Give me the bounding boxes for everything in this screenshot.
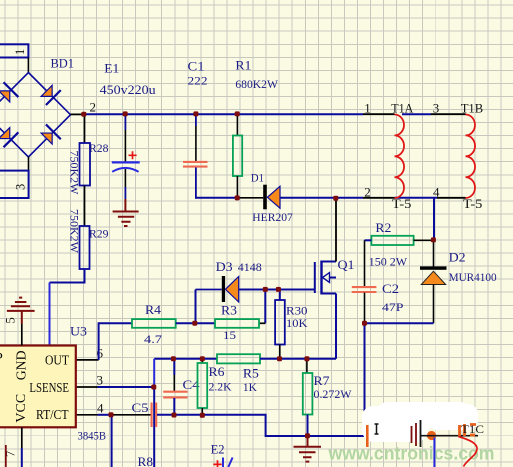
orange blob dot bbox=[427, 431, 436, 440]
diode D3 left lead bbox=[196, 289, 222, 291]
wire: LSENSE pin stub bbox=[76, 386, 98, 388]
wire: top bus black lead to T1A pin1 bbox=[363, 113, 395, 115]
BD1 diode upper-right bbox=[39, 83, 61, 105]
svg-text:MUR4100: MUR4100 bbox=[449, 270, 497, 284]
svg-text:4.7: 4.7 bbox=[144, 332, 162, 346]
svg-text:D2: D2 bbox=[449, 251, 466, 265]
svg-text:3: 3 bbox=[14, 184, 28, 190]
node: bus at bridge bbox=[81, 112, 86, 117]
capacitor C4 lower lead bbox=[173, 398, 175, 415]
svg-text:BD1: BD1 bbox=[51, 55, 75, 70]
svg-text:4: 4 bbox=[97, 400, 104, 415]
wire: R4 to R3 bbox=[176, 322, 215, 324]
wire: riser below RT/CT node bbox=[111, 415, 113, 467]
svg-text:5: 5 bbox=[4, 317, 18, 323]
wire: LSENSE to riser node bbox=[98, 386, 154, 388]
capacitor C2 lower lead bbox=[364, 293, 366, 324]
svg-text:750K2W: 750K2W bbox=[68, 151, 80, 195]
capacitor E1 lower lead bbox=[124, 169, 126, 187]
svg-text:D3: D3 bbox=[216, 260, 233, 274]
partial cap marks (maroon) bbox=[412, 423, 417, 446]
wire: R3 right lead bbox=[259, 322, 265, 324]
transformer winding T1B bbox=[466, 115, 476, 199]
wire: R1 node to D1 bbox=[237, 197, 263, 199]
ground below R7 bbox=[294, 436, 322, 462]
node: R2 right / D2 bbox=[431, 237, 436, 242]
wire: D2 bottom rail to C2 node bbox=[365, 322, 434, 324]
wire: top bus bbox=[83, 113, 363, 115]
node: mid rail R6 bbox=[200, 356, 205, 361]
wire: blue drop below T1C bbox=[433, 438, 435, 467]
resistor R3 bbox=[215, 319, 259, 328]
wire: black lead pin4 to T1B bottom bbox=[437, 197, 466, 199]
capacitor C1 plates bbox=[183, 162, 208, 167]
svg-text:Q1: Q1 bbox=[338, 258, 355, 272]
node: mid rail R30 bbox=[277, 356, 282, 361]
node: bus at E1 bbox=[123, 111, 128, 116]
svg-text:R4: R4 bbox=[145, 303, 162, 317]
BD1 diode lower-right bbox=[39, 124, 61, 146]
transformer winding T1A bbox=[395, 115, 405, 199]
svg-text:R1: R1 bbox=[235, 59, 251, 73]
orange strokes over T1C bbox=[460, 424, 477, 436]
diode D3 cathode bar bbox=[222, 276, 225, 302]
resistor R7 bottom lead bbox=[307, 415, 309, 437]
transistor Q1 source tap bbox=[322, 293, 337, 295]
wire: R2 right lead bbox=[414, 239, 434, 241]
svg-text:1: 1 bbox=[13, 49, 27, 55]
svg-text:R7: R7 bbox=[314, 374, 330, 388]
svg-text:E1: E1 bbox=[104, 61, 119, 75]
wire: OUT riser to R4 line bbox=[99, 323, 132, 360]
wire: R30 top riser bbox=[279, 290, 281, 301]
resistor R7 bbox=[303, 373, 313, 415]
svg-text:15: 15 bbox=[223, 328, 236, 342]
wire: bridge bottom to box3 bbox=[28, 157, 30, 171]
diode D2 cathode bar bbox=[420, 266, 447, 269]
resistor R2 bbox=[371, 236, 413, 245]
svg-text:P: P bbox=[0, 351, 3, 366]
svg-text:4: 4 bbox=[433, 185, 440, 200]
BD1 diode lower-left bbox=[0, 126, 18, 148]
wire: black lead pin3 to T1B bbox=[431, 113, 466, 115]
wire: riser to U3 VREF pin bbox=[49, 283, 51, 346]
capacitor C1 lower lead bbox=[195, 168, 197, 199]
capacitor C2 upper lead bbox=[364, 240, 366, 286]
svg-text:2.2K: 2.2K bbox=[209, 380, 232, 394]
svg-text:3: 3 bbox=[433, 101, 440, 116]
diode D1 cathode bar bbox=[263, 185, 267, 210]
diode D2 triangle bbox=[421, 271, 445, 284]
wire: mid rail right part bbox=[260, 358, 336, 360]
wire: D1 to Q1 drain node bbox=[280, 197, 363, 199]
svg-text:10K: 10K bbox=[286, 316, 308, 330]
transistor Q1 channel bar bbox=[320, 261, 322, 295]
wire: bottom rail to R7 ground node bbox=[308, 435, 365, 437]
capacitor E1 upper lead bbox=[124, 114, 126, 130]
svg-text:C1: C1 bbox=[188, 60, 205, 74]
svg-text:1: 1 bbox=[364, 101, 371, 116]
svg-text:2: 2 bbox=[364, 185, 371, 200]
svg-text:HER207: HER207 bbox=[252, 210, 292, 224]
black I mark bbox=[375, 424, 379, 434]
diode D2 lower lead bbox=[433, 285, 435, 324]
capacitor E1 curved plate bbox=[112, 168, 138, 172]
U3 top pin 5 stub bbox=[21, 324, 23, 346]
svg-text:LSENSE: LSENSE bbox=[29, 381, 69, 396]
wire: R29 bottom elbow bbox=[50, 269, 85, 283]
resistor R7 top stub bbox=[306, 359, 308, 373]
capacitor C5 plates bbox=[152, 403, 157, 428]
svg-text:E2: E2 bbox=[211, 442, 225, 456]
wire: D3 anode riser bbox=[195, 290, 197, 324]
node: R4/R3 riser bbox=[192, 321, 197, 326]
wire: riser node to R3 wire bbox=[264, 290, 266, 324]
transistor Q1 gate bar bbox=[314, 262, 316, 293]
capacitor C1 upper lead bbox=[195, 114, 197, 126]
svg-text:D1: D1 bbox=[251, 171, 264, 185]
svg-text:1K: 1K bbox=[243, 380, 257, 394]
svg-text:R28: R28 bbox=[89, 141, 109, 155]
resistor R6 top stub bbox=[201, 359, 203, 363]
node: D3 line R30 bbox=[276, 287, 281, 292]
svg-text:T1B: T1B bbox=[461, 101, 484, 116]
wire: RT/CT pin stub bbox=[76, 414, 98, 416]
svg-text:R2: R2 bbox=[375, 221, 391, 235]
node: RT/CT riser bbox=[109, 412, 114, 417]
resistor R1 top lead bbox=[236, 114, 238, 135]
svg-text:VCC: VCC bbox=[14, 394, 29, 423]
diode D1 triangle bbox=[267, 186, 280, 208]
svg-text:OUT: OUT bbox=[45, 354, 69, 369]
bridge rectifier BD1 diamond outline bbox=[0, 73, 70, 158]
wire: bridge right corner to node 2 bbox=[71, 113, 85, 115]
wire: C2 node riser down bbox=[364, 323, 366, 436]
wire: Q1 source down to mid rail bbox=[335, 294, 337, 359]
svg-text:3845B: 3845B bbox=[78, 429, 107, 443]
diode D3 triangle bbox=[225, 277, 238, 303]
svg-text:C2: C2 bbox=[382, 282, 399, 296]
wire: secondary rail left (C1 corner to R1) bbox=[196, 197, 238, 199]
svg-text:47P: 47P bbox=[382, 300, 404, 314]
resistor R1 bottom lead bbox=[236, 176, 238, 198]
connector box 1 bbox=[0, 44, 28, 57]
wire: C5 to C4 node bbox=[157, 414, 174, 416]
capacitor C4 upper lead bbox=[173, 359, 175, 375]
wire: T1C black lead bbox=[421, 435, 478, 437]
resistor R4 bbox=[132, 319, 176, 328]
wire: C4 node to R6 node bbox=[174, 414, 202, 416]
svg-text:222: 222 bbox=[188, 73, 208, 87]
node: mid rail R7 bbox=[304, 356, 309, 361]
capacitor E1 top plate bbox=[112, 161, 140, 163]
svg-text:R29: R29 bbox=[89, 227, 109, 241]
resistor R29 bbox=[80, 226, 90, 269]
stray red line bottom-left bbox=[5, 445, 7, 467]
ground below E1 bbox=[113, 199, 139, 226]
wire: R28 to R29 bbox=[84, 186, 86, 227]
wire: bottom rail step bbox=[202, 415, 307, 436]
svg-text:680K2W: 680K2W bbox=[235, 77, 278, 91]
svg-text:3: 3 bbox=[97, 373, 104, 388]
wire: mid rail bbox=[154, 358, 217, 360]
BD1 diode upper-left bbox=[0, 82, 18, 104]
capacitor C2 plates bbox=[352, 287, 377, 292]
svg-text:C5: C5 bbox=[132, 401, 149, 415]
node: rail at Q1 drain bbox=[333, 196, 338, 201]
resistor R28 bbox=[80, 143, 91, 186]
capacitor E1 plus sign bbox=[129, 151, 137, 159]
svg-text:R6: R6 bbox=[209, 365, 225, 379]
node: LSENSE riser bbox=[151, 385, 156, 390]
transistor Q1 drain riser bbox=[335, 198, 337, 262]
wire: R28 top lead bbox=[84, 114, 86, 143]
wire: R30 bottom lead bbox=[279, 345, 281, 359]
svg-text:GND: GND bbox=[14, 351, 29, 381]
U3 bottom pin 7 bbox=[21, 427, 23, 448]
wire: box1 to bridge top bbox=[27, 58, 29, 73]
svg-text:R3: R3 bbox=[221, 304, 237, 318]
whiteout blob bottom-right bbox=[362, 402, 478, 442]
wire: T1A pin2 to pin4 riser bbox=[395, 197, 438, 199]
svg-text:T-5: T-5 bbox=[463, 196, 483, 211]
wire: R8 riser to bottom edge bbox=[153, 387, 155, 467]
capacitor E2 plate (cut) bbox=[223, 458, 233, 467]
node: mid rail C4 bbox=[171, 356, 176, 361]
svg-text:2: 2 bbox=[90, 100, 97, 115]
svg-text:R5: R5 bbox=[243, 367, 259, 381]
resistor R6 bottom stub bbox=[201, 408, 203, 415]
wire: OUT pin stub bbox=[76, 359, 99, 361]
svg-text:RT/CT: RT/CT bbox=[36, 408, 69, 423]
orange squiggle at blob left edge bbox=[366, 425, 369, 447]
resistor R30 bbox=[275, 300, 285, 345]
node: D3 line riser bbox=[263, 287, 268, 292]
node: C4 bottom bbox=[172, 413, 177, 418]
diode D2 upper lead bbox=[433, 240, 435, 266]
svg-text:T-5: T-5 bbox=[392, 196, 412, 211]
node: R6 bottom bbox=[200, 413, 205, 418]
svg-text:4148: 4148 bbox=[238, 260, 262, 274]
wire: D3 to Q1 gate bbox=[239, 289, 314, 291]
resistor R1 bbox=[233, 136, 242, 177]
capacitor E2 plus sign bbox=[213, 460, 221, 467]
wire: RT/CT to C5 bbox=[98, 414, 112, 416]
svg-text:T1C: T1C bbox=[461, 422, 484, 436]
node: C2 bottom bbox=[362, 321, 367, 326]
node: bus at R1 bbox=[235, 111, 240, 116]
svg-text:150 2W: 150 2W bbox=[369, 254, 408, 268]
wire: LSENSE riser bbox=[153, 359, 155, 387]
svg-text:450v220u: 450v220u bbox=[100, 83, 157, 97]
svg-text:R8: R8 bbox=[138, 455, 154, 467]
red winding curve T1C bbox=[459, 437, 478, 467]
transistor Q1 body tap and arrow bbox=[329, 277, 336, 279]
svg-text:T1A: T1A bbox=[391, 101, 414, 116]
transistor Q1 drain tap bbox=[322, 261, 337, 263]
node: bus at C1 bbox=[193, 111, 198, 116]
capacitor C4 plates bbox=[163, 392, 187, 398]
wire: top bus T1A to pin3 bbox=[402, 113, 431, 115]
resistor R6 bbox=[198, 363, 208, 408]
node: rail at R1 bottom bbox=[235, 195, 240, 200]
wire: R2 left lead bbox=[365, 239, 372, 241]
wire: pin4 riser to R2 node bbox=[433, 198, 435, 240]
IC U3 body bbox=[0, 346, 76, 428]
ground above pin 5 (flipped) bbox=[7, 298, 35, 324]
node: R7 bottom / ground bbox=[305, 433, 310, 438]
wire: black lead to T1A pin2 bbox=[363, 197, 395, 199]
svg-text:U3: U3 bbox=[70, 324, 87, 339]
svg-text:750K2W: 750K2W bbox=[68, 209, 80, 253]
svg-text:6: 6 bbox=[97, 346, 104, 361]
connector box 3 bbox=[0, 171, 29, 198]
resistor R5 bbox=[217, 354, 260, 363]
svg-text:0.272W: 0.272W bbox=[314, 387, 353, 401]
